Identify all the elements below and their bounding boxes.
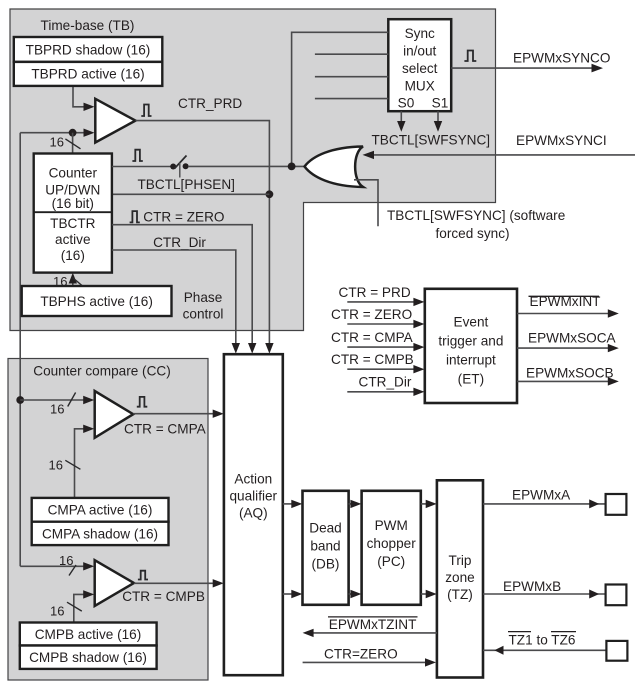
svg-text:Sync: Sync <box>405 26 435 41</box>
svg-text:trigger and: trigger and <box>438 333 503 348</box>
OR gate U2 (sync combine, facing left) <box>305 147 364 188</box>
label EPWMxINT (overline) <box>529 295 600 297</box>
wire EPWMxTZINT out of TZ <box>313 632 437 634</box>
comparator U4 (CTR = CMPB) <box>95 560 134 606</box>
register TBPHS active (16) <box>22 286 172 316</box>
wire counter top to junction <box>72 133 74 154</box>
wire CTR=ZERO into TZ <box>303 661 426 663</box>
register CMPB shadow (16) <box>20 646 157 669</box>
svg-text:CMPB shadow (16): CMPB shadow (16) <box>29 650 147 665</box>
block Trip zone (TZ) <box>437 480 483 677</box>
block Dead band (DB) <box>303 491 349 605</box>
svg-text:CTR=ZERO: CTR=ZERO <box>324 647 398 662</box>
wire PC to TZ channel B <box>421 593 427 595</box>
wire switch to OR gate output node <box>188 165 305 167</box>
pin pad TZ1-TZ6 <box>606 641 627 661</box>
wire CTR = PRD into ET <box>347 301 414 303</box>
svg-text:CTR_PRD: CTR_PRD <box>178 96 242 111</box>
svg-text:TZ1 to TZ6: TZ1 to TZ6 <box>509 632 576 647</box>
wire S0 select arrow <box>400 111 402 128</box>
pulse symbol sync out <box>464 51 476 62</box>
svg-text:(DB): (DB) <box>312 556 340 571</box>
wire bus to CMPB comparator top input <box>20 565 84 567</box>
svg-text:CTR = PRD: CTR = PRD <box>339 285 411 300</box>
wire CTR_Dir into ET <box>347 391 414 393</box>
Time-base (TB) submodule region <box>10 9 496 331</box>
svg-text:TBPHS active (16): TBPHS active (16) <box>40 294 153 309</box>
wire EPWMxSYNCI into OR gate <box>365 154 635 156</box>
register TBPRD shadow (16) <box>14 37 163 62</box>
svg-text:Event: Event <box>454 314 489 329</box>
svg-text:16: 16 <box>59 553 73 568</box>
wire EPWMxINT out <box>517 313 608 315</box>
wire AQ to DB channel B <box>283 593 293 595</box>
svg-text:Counter: Counter <box>49 165 98 180</box>
wire TBPRD active to comparator top input <box>73 86 84 107</box>
svg-text:in/out: in/out <box>403 43 436 58</box>
svg-text:Phase: Phase <box>184 290 223 305</box>
svg-text:(AQ): (AQ) <box>239 506 268 521</box>
node junction TBCTR tap <box>69 129 77 137</box>
svg-text:qualifier: qualifier <box>229 489 277 504</box>
node junction CTR_PRD / counter line <box>266 190 274 198</box>
svg-text:EPWMxSYNCO: EPWMxSYNCO <box>513 51 610 66</box>
Counter compare (CC) submodule region <box>8 359 208 681</box>
register CMPA shadow (16) <box>32 522 169 545</box>
bus-width slash 16 (CMPB bottom) <box>67 602 82 611</box>
switch control tick <box>179 163 181 178</box>
pulse symbol on sync line <box>132 150 142 161</box>
wire PC to TZ channel A <box>421 503 427 505</box>
wire DB to PC channel B <box>349 593 352 595</box>
svg-text:(16): (16) <box>61 248 85 263</box>
svg-text:CTR = CMPB: CTR = CMPB <box>331 352 414 367</box>
svg-text:zone: zone <box>445 570 474 585</box>
svg-text:CTR_Dir: CTR_Dir <box>153 235 206 250</box>
svg-text:EPWMxTZINT: EPWMxTZINT <box>329 617 417 632</box>
switch TBCTL[PHSEN] contact dots <box>170 164 176 170</box>
svg-text:CTR = ZERO: CTR = ZERO <box>331 307 412 322</box>
wire CTR = ZERO into ET <box>347 323 414 325</box>
wire TBPHS to counter <box>72 276 74 286</box>
wire TZ1-TZ6 into TZ <box>483 649 606 651</box>
svg-text:CMPB active (16): CMPB active (16) <box>35 627 142 642</box>
switch lever <box>175 156 187 169</box>
svg-text:select: select <box>402 61 438 76</box>
register CMPB active (16) <box>20 623 157 646</box>
svg-text:CTR = CMPA: CTR = CMPA <box>124 422 207 437</box>
block Action qualifier (AQ) <box>224 354 283 675</box>
wire MUX input stub 1 <box>315 53 388 55</box>
wire OR output up to MUX input <box>292 32 389 166</box>
svg-text:CMPA shadow (16): CMPA shadow (16) <box>42 526 158 541</box>
svg-text:CTR_Dir: CTR_Dir <box>359 375 412 390</box>
svg-text:TBCTR: TBCTR <box>50 216 95 231</box>
svg-text:MUX: MUX <box>405 78 435 93</box>
node junction OR output <box>288 163 296 171</box>
wire CTR_PRD from comparator right and down to AQ <box>136 121 270 344</box>
register TBPRD active (16) <box>14 62 163 86</box>
wire CTR_Dir down to AQ <box>112 250 236 344</box>
svg-text:EPWMxSOCA: EPWMxSOCA <box>528 330 617 345</box>
pulse symbol CMPA match <box>137 397 147 407</box>
wire CTR = CMPA to AQ <box>133 413 213 415</box>
svg-text:TBPRD shadow (16): TBPRD shadow (16) <box>26 42 151 57</box>
svg-text:CMPA active (16): CMPA active (16) <box>48 502 153 517</box>
svg-text:Counter compare (CC): Counter compare (CC) <box>33 364 171 379</box>
wire DB to PC channel A <box>349 503 352 505</box>
wire left vertical bus (TBCTR 16-bit) down to CC <box>19 133 21 567</box>
svg-text:(TZ): (TZ) <box>447 587 473 602</box>
svg-text:Dead: Dead <box>309 520 342 535</box>
svg-text:CTR = CMPB: CTR = CMPB <box>122 589 205 604</box>
svg-text:interrupt: interrupt <box>446 352 496 367</box>
block Event trigger and interrupt (ET) <box>425 289 517 403</box>
bus-width slash 16 (CMPA bottom) <box>65 460 80 469</box>
comparator U3 (CTR = CMPA) <box>95 391 134 438</box>
svg-text:S1: S1 <box>432 96 449 111</box>
arrow CTR_PRD into AQ top <box>265 343 273 354</box>
wire CMPB active to comparator lower input <box>74 594 84 622</box>
wire S1 select arrow <box>437 111 439 128</box>
wire CTR = ZERO down to AQ <box>112 225 252 344</box>
svg-text:(PC): (PC) <box>377 554 405 569</box>
svg-text:TBPRD active (16): TBPRD active (16) <box>31 67 144 82</box>
bus-width slash 16 (comparator input) <box>65 139 80 149</box>
label TZ1 to TZ6 (overlines) <box>508 631 531 633</box>
svg-text:16: 16 <box>50 603 64 618</box>
wire MUX output EPWMxSYNCO <box>451 67 592 69</box>
wire CMPA active to comparator lower input <box>75 429 85 498</box>
svg-text:TBCTL[SWFSYNC]: TBCTL[SWFSYNC] <box>372 132 491 147</box>
svg-text:(16 bit): (16 bit) <box>52 196 94 211</box>
pin pad EPWMxA <box>606 494 627 515</box>
wire software forced sync into OR gate <box>354 180 378 227</box>
arrow CTR_Dir into AQ top <box>232 343 240 354</box>
svg-text:EPWMxB: EPWMxB <box>503 579 561 594</box>
svg-text:Trip: Trip <box>449 553 472 568</box>
bus-width slash 16 (TBPHS) <box>73 278 86 289</box>
svg-text:16: 16 <box>50 135 64 150</box>
svg-text:TBCTL[PHSEN]: TBCTL[PHSEN] <box>138 177 235 192</box>
wire counter sync line to switch <box>112 166 171 168</box>
svg-text:EPWMxSOCB: EPWMxSOCB <box>526 366 614 381</box>
svg-text:EPWMxA: EPWMxA <box>512 487 571 502</box>
pin pad EPWMxB <box>606 585 627 606</box>
block PWM chopper (PC) <box>362 491 421 605</box>
wire bus to CMPA comparator top input <box>20 399 84 401</box>
svg-text:forced sync): forced sync) <box>436 226 510 241</box>
register Counter UP/DWN (16 bit) / TBCTR active (16) <box>34 154 112 273</box>
label EPWMxTZINT (overline) <box>328 616 418 618</box>
svg-text:band: band <box>310 538 340 553</box>
bus-width slash 16 (CMPB top) <box>69 565 76 576</box>
wire CTR = CMPA into ET <box>347 346 414 348</box>
node junction CC bus tap <box>16 396 24 404</box>
svg-text:control: control <box>183 306 224 321</box>
pulse symbol CTR = ZERO <box>130 211 140 222</box>
svg-text:16: 16 <box>50 402 64 417</box>
pulse symbol CMPB match <box>138 571 148 580</box>
svg-text:EPWMxSYNCI: EPWMxSYNCI <box>516 133 607 148</box>
svg-text:TBCTL[SWFSYNC] (software: TBCTL[SWFSYNC] (software <box>387 208 565 223</box>
wire TZ to EPWMxB pad <box>483 593 606 595</box>
comparator U1 (TBPRD = TBCTR) <box>95 99 135 143</box>
svg-text:S0: S0 <box>398 96 415 111</box>
arrow CTR=ZERO into AQ top <box>248 343 256 354</box>
MUX sync in/out select <box>388 19 451 111</box>
svg-text:Action: Action <box>234 472 272 487</box>
bus-width slash 16 (CMPA top) <box>68 393 76 407</box>
wire TBCTR bus horizontal to comparator lower input <box>20 132 84 134</box>
wire CTR = CMPB to AQ <box>134 582 213 584</box>
pulse symbol CTR_PRD <box>141 105 151 117</box>
svg-text:EPWMxINT: EPWMxINT <box>530 294 601 309</box>
svg-text:CTR = CMPA: CTR = CMPA <box>331 330 414 345</box>
wire AQ to DB channel A <box>283 503 293 505</box>
wire MUX input stub 3 <box>315 98 388 100</box>
svg-text:(ET): (ET) <box>458 371 484 386</box>
wire MUX input stub 2 <box>315 76 388 78</box>
register CMPA active (16) <box>32 498 169 522</box>
svg-text:16: 16 <box>49 458 63 473</box>
wire CTR = CMPB into ET <box>347 368 414 370</box>
svg-text:CTR = ZERO: CTR = ZERO <box>143 210 224 225</box>
wire TZ to EPWMxA pad <box>483 503 606 505</box>
svg-text:Time-base (TB): Time-base (TB) <box>41 18 135 33</box>
wire counter output to junction <box>112 193 270 195</box>
wire EPWMxSOCA out <box>517 347 608 349</box>
svg-text:PWM: PWM <box>375 518 408 533</box>
svg-text:chopper: chopper <box>367 536 417 551</box>
wire EPWMxSOCB out <box>517 380 608 382</box>
svg-text:active: active <box>55 232 91 247</box>
